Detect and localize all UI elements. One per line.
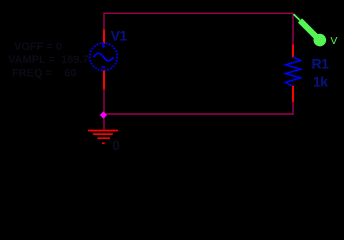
- ground bar 1: [88, 130, 118, 132]
- wire ground stub: [103, 114, 105, 130]
- V1 minus mark: [102, 66, 106, 68]
- wire right vertical (top corner to R1 pin): [292, 13, 294, 46]
- wire left vertical (top corner to V1 pin): [103, 13, 105, 31]
- resistor R1 pin 1 (top lead, red): [292, 45, 294, 58]
- ground bar 4: [102, 142, 105, 144]
- svg-text:VOFF = 0: VOFF = 0: [14, 41, 62, 53]
- wire top horizontal net: [104, 12, 293, 14]
- ground bar 3: [98, 137, 111, 139]
- svg-text:V1: V1: [111, 28, 128, 44]
- svg-text:1k: 1k: [313, 74, 328, 90]
- wire left vertical (V1 pin to bottom corner): [103, 89, 105, 115]
- V1 plus mark: [102, 44, 105, 47]
- probe tip thin line: [294, 14, 300, 20]
- V1 pin 2 (bottom lead, red): [103, 71, 105, 90]
- svg-text:R1: R1: [312, 56, 330, 72]
- V1 sine symbol: [94, 53, 114, 61]
- svg-text:0: 0: [112, 137, 120, 153]
- probe stick: [300, 21, 317, 38]
- svg-text:VAMPL = 169.7: VAMPL = 169.7: [8, 54, 89, 66]
- voltage source V1 body (dotted blue circle): [90, 43, 118, 71]
- resistor R1 pin 2 (bottom lead, red): [292, 86, 294, 102]
- ground bar 2: [93, 133, 113, 135]
- resistor R1 zigzag body: [286, 57, 301, 87]
- wire right vertical (R1 pin to bottom corner): [292, 102, 294, 116]
- svg-text:FREQ = 60: FREQ = 60: [12, 68, 77, 80]
- probe ball: [314, 34, 327, 47]
- op V1 pin 1 (top lead, red): [103, 30, 105, 45]
- wire bottom horizontal net: [104, 113, 293, 115]
- svg-text:V: V: [330, 35, 337, 47]
- junction node diamond: [100, 111, 107, 118]
